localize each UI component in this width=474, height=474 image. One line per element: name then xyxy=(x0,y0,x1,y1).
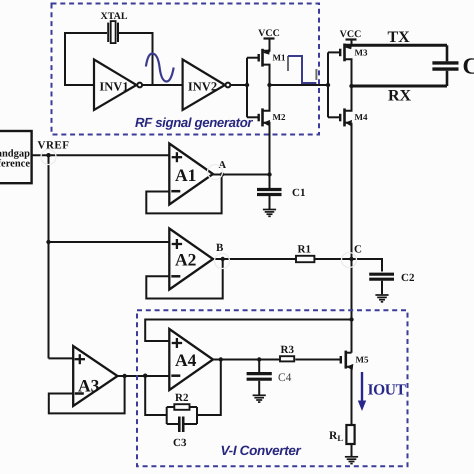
svg-text:V-I Converter: V-I Converter xyxy=(221,443,302,458)
V-I converter dashed box xyxy=(137,310,408,466)
RF signal generator dashed box xyxy=(52,4,320,135)
svg-text:RX: RX xyxy=(388,87,412,104)
resistor R2 xyxy=(174,404,189,410)
svg-text:B: B xyxy=(216,242,224,254)
svg-text:M3: M3 xyxy=(355,48,368,58)
wire M1/M2 output to M3/M4 gate bus xyxy=(270,84,329,86)
wire A3 feedback loop xyxy=(49,376,125,413)
svg-text:A1: A1 xyxy=(175,165,196,185)
wire bus to A2 + input xyxy=(49,241,170,243)
sine wave annotation xyxy=(146,54,174,82)
wire A4 + input sense xyxy=(145,320,351,342)
svg-text:reference: reference xyxy=(0,159,30,170)
transistor M2 (NMOS) xyxy=(259,85,286,175)
ground (C4) xyxy=(253,395,266,402)
wire A3 out to A4 - input xyxy=(118,375,170,377)
svg-text:VCC: VCC xyxy=(340,29,362,40)
inverter INV1 xyxy=(94,60,142,111)
IOUT arrow xyxy=(358,372,407,411)
svg-text:IOUT: IOUT xyxy=(368,382,407,399)
svg-text:C2: C2 xyxy=(401,272,415,284)
svg-text:R1: R1 xyxy=(298,244,311,256)
svg-text:A2: A2 xyxy=(175,250,196,270)
svg-text:C3: C3 xyxy=(173,437,187,449)
capacitor C2 xyxy=(369,272,415,294)
capacitor C4 xyxy=(247,372,292,395)
wire VREF bus vertical xyxy=(48,155,50,358)
svg-text:M1: M1 xyxy=(273,53,286,63)
VCC (M1) xyxy=(258,28,280,50)
transistor M5 (NMOS) xyxy=(341,351,369,425)
wire C4 branch xyxy=(258,360,260,373)
svg-text:C4: C4 xyxy=(278,372,292,384)
wire RL to ground xyxy=(351,444,353,456)
node A wire xyxy=(212,174,270,176)
ground (RL) xyxy=(345,457,358,464)
svg-text:C: C xyxy=(354,244,362,256)
wire A4 feedback down xyxy=(197,360,221,416)
wire A4 - feedback down xyxy=(145,376,167,415)
transistor M3 (PMOS) xyxy=(340,43,368,86)
wire xtal loop left xyxy=(65,33,107,85)
op-amp A3 xyxy=(73,346,117,406)
svg-text:A4: A4 xyxy=(175,350,197,370)
wire M1 M2 gate bus xyxy=(246,58,248,118)
svg-text:R2: R2 xyxy=(175,392,189,404)
wire node C to C2 xyxy=(352,259,383,272)
node B wire xyxy=(212,258,296,260)
wire bandgap to A1 + input xyxy=(32,154,170,156)
wire R1 to node C xyxy=(314,258,351,260)
bandgap reference box xyxy=(0,131,32,183)
svg-text:R3: R3 xyxy=(281,344,295,356)
capacitor C3 xyxy=(173,417,187,450)
resistor RL xyxy=(346,425,354,444)
crystal XTAL xyxy=(108,21,118,43)
svg-text:C1: C1 xyxy=(292,187,305,199)
VCC (M3) xyxy=(340,29,362,45)
ground (C1) xyxy=(263,210,276,217)
wire xtal loop right xyxy=(119,33,153,85)
transistor M4 (NMOS) xyxy=(340,86,368,126)
svg-text:M2: M2 xyxy=(273,112,286,122)
svg-text:INV1: INV1 xyxy=(99,79,128,93)
svg-text:M4: M4 xyxy=(355,112,368,122)
wire A4 output xyxy=(212,359,280,361)
R2 C3 feedback block xyxy=(167,407,197,424)
op-amp A1 xyxy=(169,144,213,205)
RX line xyxy=(352,85,448,88)
capacitor C (antenna) xyxy=(432,45,474,86)
wire INV2 out to M1/M2 gate bus xyxy=(230,84,247,86)
svg-text:M5: M5 xyxy=(356,355,369,365)
wire M3 M4 gate bus xyxy=(327,52,329,117)
svg-text:RL: RL xyxy=(329,430,343,443)
op-amp A4 xyxy=(169,329,213,390)
resistor R3 xyxy=(280,356,294,361)
transistor M1 (PMOS) xyxy=(259,39,286,86)
svg-text:VCC: VCC xyxy=(258,28,280,39)
svg-text:INV2: INV2 xyxy=(188,79,217,93)
op-amp A2 xyxy=(169,229,213,290)
wire A1 feedback loop xyxy=(146,175,221,214)
wire INV1 out to INV2 in xyxy=(142,84,183,86)
svg-text:TX: TX xyxy=(388,29,411,46)
square wave annotation xyxy=(288,56,316,83)
TX line xyxy=(345,44,448,47)
wire bus to A3 + input xyxy=(49,357,74,359)
svg-text:RF signal generator: RF signal generator xyxy=(135,115,253,130)
wire R3 to M5 gate xyxy=(295,359,340,361)
wire A2 feedback loop xyxy=(146,259,222,299)
svg-text:C: C xyxy=(463,53,474,78)
resistor R1 xyxy=(296,256,314,262)
wire long vertical M4 to M5 drain xyxy=(351,123,353,353)
ground (C2) xyxy=(375,295,388,302)
inverter INV2 xyxy=(183,60,231,111)
capacitor C1 xyxy=(257,175,305,210)
faint node highlight rings xyxy=(41,150,357,269)
svg-text:VREF: VREF xyxy=(38,140,70,152)
